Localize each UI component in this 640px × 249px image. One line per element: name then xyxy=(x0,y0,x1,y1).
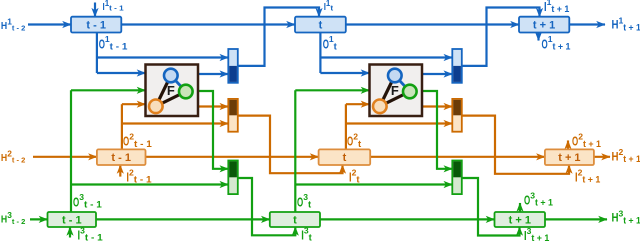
svg-text:t + 1: t + 1 xyxy=(558,152,580,164)
svg-text:t - 1: t - 1 xyxy=(62,214,82,226)
svg-text:t: t xyxy=(319,19,323,31)
svg-text:t - 1: t - 1 xyxy=(86,19,106,31)
svg-text:F: F xyxy=(391,83,399,98)
svg-text:t: t xyxy=(293,214,297,226)
svg-text:t + 1: t + 1 xyxy=(533,19,555,31)
svg-text:F: F xyxy=(167,83,175,98)
svg-text:t + 1: t + 1 xyxy=(509,214,531,226)
svg-text:t: t xyxy=(343,152,347,164)
svg-text:t - 1: t - 1 xyxy=(111,152,131,164)
